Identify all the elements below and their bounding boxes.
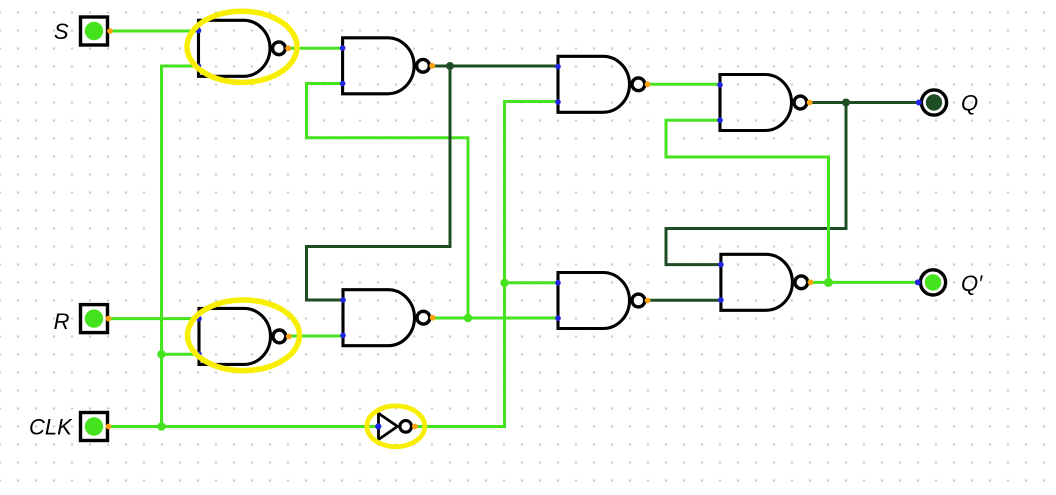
port dot inverter out — [412, 424, 418, 430]
port dot G1.in2 — [196, 63, 202, 69]
wire: G3.out -> G4.in1 — [648, 83, 721, 86]
NAND gate G7 (R gate) — [199, 308, 286, 364]
highlight ellipse around G7 — [188, 300, 300, 371]
input pin CLK — [81, 413, 108, 441]
port dot G6.out — [808, 279, 814, 285]
NAND gate G2 (master latch top) — [343, 38, 430, 94]
port dot G5.in2 — [555, 315, 561, 321]
port dot G8.in2 — [340, 333, 346, 339]
wire: R pin -> G7.in1 — [108, 317, 199, 320]
wire: CLK branch stub -> G7.in2 — [162, 353, 200, 356]
wire: G2.out junction down/left to G8.in1 (dark) — [307, 66, 451, 300]
wire: CLK pin -> inverter input — [109, 425, 379, 428]
junction G2.out net (dark) — [446, 62, 454, 70]
port dot G5.in1 — [555, 280, 561, 286]
port dot G8.out — [430, 315, 436, 321]
port dot G4.in2 — [717, 117, 723, 123]
NAND gate G5 (slave input bottom) — [558, 273, 645, 329]
input pin S — [81, 17, 108, 45]
port dot G2.out — [429, 63, 435, 69]
junction CLK bottom — [157, 422, 165, 430]
junction Q net (dark) — [842, 99, 850, 107]
junction CLK' / G5.in1 — [500, 279, 508, 287]
output pin Q — [921, 90, 946, 115]
NAND gate G3 (slave input top) — [558, 56, 645, 112]
wire: G7.out -> G8.in2 — [288, 335, 344, 338]
port dot G7.out — [286, 334, 292, 340]
wire: G4.out -> Q pin (dark) — [810, 101, 920, 104]
output pin Q' — [920, 270, 945, 295]
svg-text:Q′: Q′ — [961, 271, 983, 296]
port dot inverter in — [375, 423, 381, 429]
port dot G4.in1 — [717, 82, 723, 88]
svg-text:CLK: CLK — [29, 414, 73, 439]
port dot G2.in2 — [340, 81, 346, 87]
port dot G3.in2 — [555, 99, 561, 105]
input pin R — [81, 305, 108, 333]
port dot S output — [107, 28, 113, 34]
svg-text:R: R — [54, 309, 70, 334]
wire: G2.out -> G3.in1 (dark, logic 0) — [432, 65, 559, 68]
port dot CLK output — [106, 424, 112, 430]
NAND gate G1 (S gate) — [199, 20, 286, 76]
port dot G4.out — [807, 100, 813, 106]
wire: S pin -> G1.in1 — [109, 30, 199, 33]
svg-text:S: S — [54, 19, 69, 44]
port dot G3.out — [645, 81, 651, 87]
port dot G6.in2 — [718, 297, 724, 303]
junction G8.out net — [464, 314, 472, 322]
wire: Q feedback to G6.in1 (dark) — [666, 103, 846, 265]
highlight ellipse around G1 — [187, 11, 297, 82]
port dot R output — [106, 316, 112, 322]
wire: G5.out -> G6.in2 (dark) — [648, 299, 721, 302]
port dot G5.out — [645, 298, 651, 304]
port dot G6.in1 — [718, 262, 724, 268]
wire: CLK vertical branch — [162, 66, 199, 427]
port dot Q pin — [916, 100, 922, 106]
wire: G8.out -> G5.in2 — [432, 317, 558, 320]
port dot G1.in1 — [196, 28, 202, 34]
port dot G3.in1 — [555, 64, 561, 70]
inverter U1 (CLK) — [379, 413, 412, 439]
svg-text:Q: Q — [961, 91, 978, 116]
port dot G7.in2 — [196, 351, 202, 357]
NAND gate G8 (master latch bottom) — [343, 290, 430, 346]
wire: Q' feedback to G4.in2 — [666, 120, 829, 282]
NAND gate G4 (slave latch top) — [720, 75, 807, 131]
port dot G1.out — [285, 45, 291, 51]
wire: inverter out -> CLK' vertical -> G3.in2 — [415, 102, 559, 427]
highlight ellipse around inverter U1 — [367, 406, 425, 447]
port dot G7.in1 — [196, 316, 202, 322]
NAND gate G6 (slave latch bottom) — [721, 254, 808, 310]
port dot G8.in1 — [340, 297, 346, 303]
wire: master cross-couple G8.out -> G2.in2 (drawn under dark wires) — [307, 84, 469, 319]
junction CLK/G7.in2 — [157, 350, 165, 358]
port dot Q' pin — [915, 279, 921, 285]
port dot G2.in1 — [340, 45, 346, 51]
wire: CLK' stub -> G5.in1 — [505, 281, 559, 284]
wire: G1.out -> G2.in1 — [288, 47, 343, 50]
wire: G6.out -> Q' pin — [811, 281, 919, 284]
junction Q' net — [824, 278, 833, 287]
